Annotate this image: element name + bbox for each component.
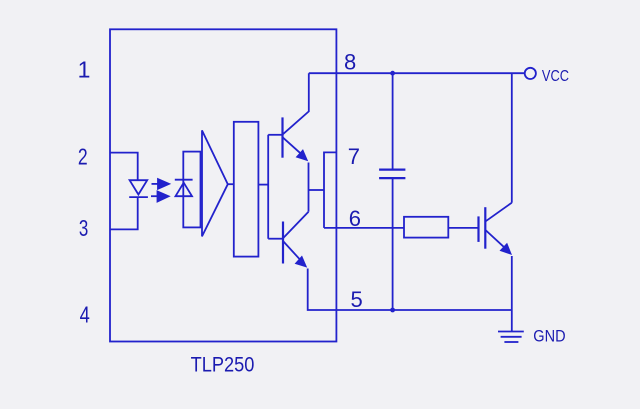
- junction dot node GND: [390, 308, 395, 313]
- wire Q3 collector riser: [511, 73, 513, 203]
- wire amp to driver: [228, 183, 234, 185]
- photodiode D2: [175, 180, 193, 197]
- wire R1 to Q3 gate: [448, 227, 478, 229]
- ground: [498, 332, 524, 343]
- wire base bus: [267, 135, 269, 239]
- svg-text:7: 7: [348, 144, 360, 169]
- svg-text:4: 4: [80, 301, 90, 327]
- svg-text:1: 1: [78, 57, 91, 83]
- svg-text:GND: GND: [533, 327, 565, 345]
- svg-text:2: 2: [78, 143, 88, 169]
- arrow light A2: [151, 190, 171, 203]
- terminal VCC: [525, 68, 536, 79]
- transistor Q1: [268, 73, 309, 161]
- IC body U1 TLP250: [110, 29, 336, 341]
- wire driver output: [258, 184, 268, 186]
- wire Q3 emitter to ground: [511, 256, 513, 332]
- resistor R1: [404, 217, 448, 238]
- transistor Q3: [479, 203, 513, 255]
- svg-text:5: 5: [351, 287, 363, 312]
- wire pin3 loop: [110, 197, 138, 229]
- svg-text:8: 8: [344, 50, 356, 75]
- wire node to bus7: [309, 189, 325, 191]
- amplifier U2: [202, 130, 228, 236]
- driver block: [234, 122, 259, 257]
- LED D1: [129, 180, 148, 197]
- svg-text:3: 3: [79, 215, 88, 241]
- photodiode box: [183, 152, 200, 228]
- junction dot node VCC: [390, 71, 395, 76]
- svg-text:6: 6: [349, 206, 361, 231]
- wire pin8 VCC rail: [309, 72, 525, 74]
- wire pin2 stub: [110, 153, 138, 181]
- wire pin6 out: [324, 227, 404, 229]
- wire emitter node: [308, 163, 310, 212]
- capacitor C1: [379, 73, 405, 310]
- svg-text:VCC: VCC: [542, 68, 569, 85]
- arrow light A1: [152, 178, 172, 190]
- transistor Q2: [268, 212, 308, 268]
- svg-text:TLP250: TLP250: [191, 353, 255, 376]
- wire pin7 bus: [324, 152, 336, 228]
- wire Q2 emitter to pin5: [308, 269, 512, 311]
